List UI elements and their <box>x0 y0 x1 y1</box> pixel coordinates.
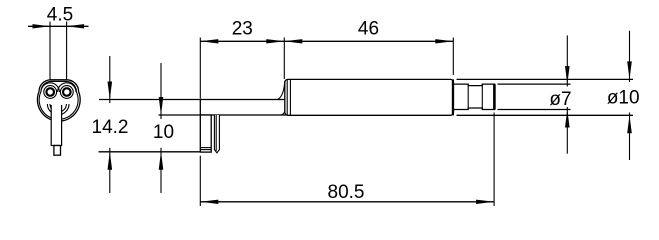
svg-text:80.5: 80.5 <box>328 182 365 203</box>
svg-text:46: 46 <box>358 18 379 39</box>
svg-text:ø10: ø10 <box>607 88 640 109</box>
svg-text:4.5: 4.5 <box>47 5 73 26</box>
svg-text:14.2: 14.2 <box>92 117 129 138</box>
svg-text:10: 10 <box>153 122 174 143</box>
svg-text:ø7: ø7 <box>549 89 571 110</box>
svg-text:23: 23 <box>232 18 253 39</box>
